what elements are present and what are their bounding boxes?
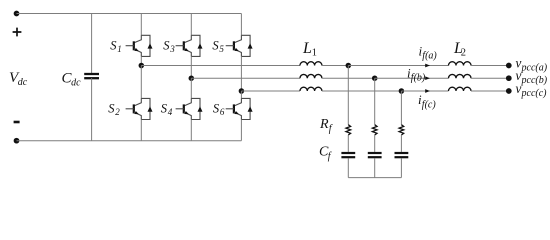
svg-text:4: 4 [168, 107, 173, 117]
wire: S3 emitter to phase node [190, 56, 192, 78]
wire: phase c from L1 to filter tap [322, 90, 402, 92]
wire: Rf to Cf phase a [347, 135, 349, 152]
wire: phase b from inverter leg to L1 [191, 77, 300, 79]
resistor Rf phase b [372, 125, 377, 135]
plus sign label [13, 28, 22, 37]
wire: phase b from tap to L2 [375, 77, 449, 79]
wire: leg 1 from top rail to S1 [140, 14, 142, 36]
current arrow i_f(c) [425, 89, 430, 93]
svg-text:5: 5 [219, 44, 224, 54]
terminal node v_pcc(b) [506, 75, 512, 81]
inductor L1 phase b [300, 74, 322, 78]
svg-text:2: 2 [115, 107, 120, 117]
node: phase c midpoint junction [239, 88, 245, 94]
node: filter tap phase a [346, 63, 352, 69]
svg-text:f(b): f(b) [411, 73, 426, 84]
svg-text:f(a): f(a) [422, 51, 437, 62]
wire: phase c from inverter leg to L1 [241, 90, 300, 92]
wire: Rf to Cf phase b [374, 135, 376, 152]
svg-text:dc: dc [71, 78, 81, 89]
wire: phase c from tap to L2 [401, 90, 448, 92]
node: phase a midpoint junction [139, 63, 145, 69]
wire: phase a from inverter leg to L1 [141, 65, 300, 67]
wire: phase c from L2 to PCC terminal [471, 90, 509, 92]
wire: phase a from L1 to filter tap [322, 65, 348, 67]
DC source positive terminal node [14, 11, 20, 17]
wire: Rf to Cf phase c [400, 135, 402, 152]
node: filter tap phase c [399, 88, 405, 94]
wire: phase b from L2 to PCC terminal [471, 77, 509, 79]
minus sign label [14, 121, 20, 124]
wire: leg 2 from top rail to S3 [190, 14, 192, 36]
svg-text:S: S [212, 38, 219, 52]
wire: S2 emitter to bottom rail [140, 120, 142, 141]
svg-text:1: 1 [312, 48, 317, 59]
wire: S1 emitter to phase node [140, 56, 142, 65]
current arrow i_f(b) [425, 76, 430, 80]
capacitor Cf phase a [341, 153, 355, 157]
wire: Cf to star point phase a [347, 158, 349, 177]
wire: S4 emitter to bottom rail [190, 120, 192, 141]
svg-text:pcc(b): pcc(b) [521, 75, 548, 86]
inductor L2 phase a [449, 62, 472, 66]
terminal node v_pcc(c) [506, 88, 512, 94]
inductor L2 phase c [449, 87, 472, 91]
transistor S5 (IGBT with antiparallel diode) [226, 35, 253, 56]
inductor L1 phase a [300, 62, 322, 66]
transistor S4 (IGBT with antiparallel diode) [176, 98, 203, 119]
svg-text:1: 1 [117, 44, 122, 54]
transistor S6 (IGBT with antiparallel diode) [226, 98, 253, 119]
svg-text:f: f [329, 123, 333, 134]
wire: leg 3 from top rail to S5 [240, 14, 242, 36]
wire: S5 emitter to phase node [240, 56, 242, 91]
wire: phase a from L2 to PCC terminal [471, 65, 509, 67]
svg-text:R: R [319, 117, 329, 132]
svg-text:pcc(c): pcc(c) [521, 88, 548, 99]
svg-text:f: f [328, 151, 332, 162]
transistor S1 (IGBT with antiparallel diode) [126, 35, 153, 56]
svg-text:3: 3 [169, 44, 175, 54]
svg-text:f(c): f(c) [422, 99, 437, 110]
svg-text:S: S [110, 38, 117, 52]
wire: Cdc top lead [91, 14, 93, 74]
transistor S2 (IGBT with antiparallel diode) [126, 98, 153, 119]
current arrow i_f(a) [425, 64, 430, 68]
wire: filter branch b down to Rf [374, 78, 376, 125]
wire: S6 emitter to bottom rail [240, 120, 242, 141]
wire: filter star point [348, 177, 401, 179]
transistor S3 (IGBT with antiparallel diode) [176, 35, 203, 56]
inductor L1 phase c [300, 87, 322, 91]
svg-text:2: 2 [461, 48, 466, 59]
capacitor Cf phase c [395, 153, 409, 157]
resistor Rf phase c [399, 125, 404, 135]
node: phase b midpoint junction [189, 75, 195, 81]
wire: phase node to S2 [140, 66, 142, 99]
wire: filter branch c down to Rf [400, 91, 402, 125]
capacitor Cf phase b [368, 153, 382, 157]
capacitor Cdc [84, 74, 99, 78]
svg-text:dc: dc [18, 77, 28, 88]
wire: bottom DC rail [17, 140, 242, 142]
wire: phase b from L1 to filter tap [322, 77, 375, 79]
svg-text:pcc(a): pcc(a) [521, 62, 548, 73]
wire: Cdc bottom lead [91, 78, 93, 141]
node: filter tap phase b [372, 75, 378, 81]
wire: filter branch a down to Rf [347, 66, 349, 125]
wire: top DC rail [17, 13, 242, 15]
terminal node v_pcc(a) [506, 63, 512, 69]
wire: phase node to S4 [190, 78, 192, 98]
svg-text:6: 6 [220, 107, 225, 117]
DC source negative terminal node [14, 138, 20, 144]
svg-text:S: S [163, 38, 170, 52]
wire: Cf to star point phase c [400, 158, 402, 177]
svg-text:S: S [108, 101, 115, 115]
wire: phase node to S6 [240, 91, 242, 98]
svg-text:S: S [161, 101, 168, 115]
wire: phase a from tap to L2 [348, 65, 448, 67]
inductor L2 phase b [449, 74, 472, 78]
svg-text:L: L [302, 40, 312, 57]
svg-text:S: S [213, 101, 220, 115]
resistor Rf phase a [346, 125, 351, 135]
wire: Cf to star point phase b [374, 158, 376, 177]
